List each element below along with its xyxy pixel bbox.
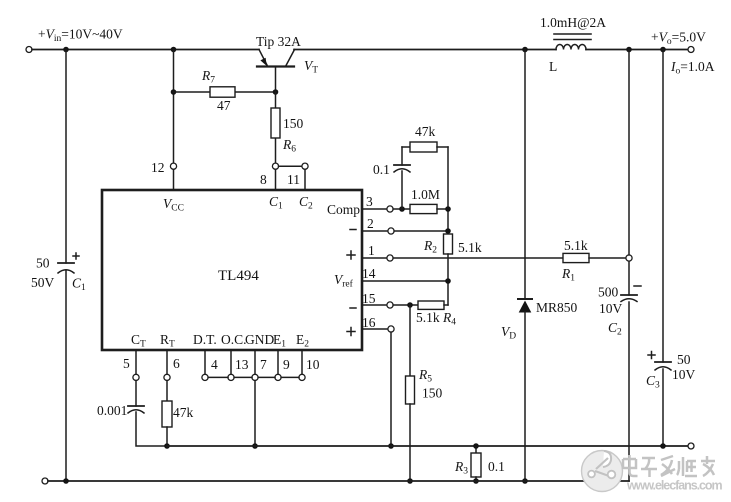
svg-text:13: 13	[235, 357, 249, 372]
label 0.1	[373, 162, 390, 177]
svg-text:16: 16	[362, 315, 376, 330]
pin 15 circle	[387, 302, 393, 308]
pin 9 circle	[275, 374, 281, 380]
svg-text:3: 3	[366, 194, 373, 209]
svg-text:1: 1	[368, 243, 375, 258]
junction pin 2 bus	[445, 228, 451, 234]
pin 2 circle	[388, 228, 394, 234]
pin 16 circle	[388, 326, 394, 332]
wire top rail left	[32, 49, 259, 51]
diode MR850	[518, 50, 532, 482]
label 0.001	[97, 403, 127, 418]
svg-text:5.1k: 5.1k	[458, 240, 482, 255]
capacitor 0.1	[394, 147, 410, 209]
signal ground terminal	[688, 443, 694, 449]
svg-text:11: 11	[287, 172, 300, 187]
svg-text:47: 47	[217, 98, 231, 113]
wire Vcc branch vertical pin 12	[173, 50, 175, 191]
svg-text:+Vin=10V~40V: +Vin=10V~40V	[38, 27, 123, 45]
pin 6 circle	[164, 374, 170, 380]
label pin 15	[362, 291, 376, 306]
junction C3 bottom	[660, 443, 666, 449]
svg-text:0.1: 0.1	[373, 162, 390, 177]
pin 7 circle	[252, 374, 258, 380]
pin 11 circle	[302, 163, 308, 169]
wire signal ground line	[167, 445, 688, 447]
label 47	[217, 98, 231, 113]
resistor R1	[563, 253, 626, 262]
svg-text:5: 5	[123, 356, 130, 371]
pin 13 circle	[228, 374, 234, 380]
wire pin 1 feedback line	[393, 257, 563, 259]
svg-text:47k: 47k	[173, 405, 194, 420]
inductor L	[554, 34, 591, 50]
label pin 11	[287, 172, 300, 187]
label Vcc pin name	[163, 196, 184, 214]
label Vref	[334, 272, 354, 290]
svg-text:Tip 32A: Tip 32A	[256, 34, 301, 49]
wire pin 7 stub	[254, 350, 256, 374]
label C2 pin name	[299, 194, 313, 212]
resistor 47k feedback	[402, 142, 448, 152]
wire pin 14	[362, 280, 448, 282]
svg-text:TL494: TL494	[218, 268, 259, 284]
svg-text:50V: 50V	[31, 275, 55, 290]
label pin 1	[368, 243, 375, 258]
wire left branch vertical	[65, 50, 67, 482]
wire pin11 stub	[304, 169, 306, 190]
label TL494	[218, 268, 259, 284]
label RT pin name	[160, 332, 175, 350]
svg-text:0.001: 0.001	[97, 403, 127, 418]
junction R5 bottom	[407, 478, 413, 484]
svg-text:15: 15	[362, 291, 376, 306]
svg-text:50: 50	[677, 352, 691, 367]
resistor 47k RT	[162, 381, 172, 447]
label E2	[296, 332, 309, 350]
label minus C2	[634, 285, 641, 287]
svg-text:500: 500	[598, 285, 619, 300]
wire pin 13 stub	[230, 350, 232, 374]
label Comp	[327, 202, 360, 217]
resistor R5	[406, 305, 415, 481]
junction R3 top	[473, 443, 479, 449]
pin 10 circle	[299, 374, 305, 380]
svg-text:4: 4	[211, 357, 218, 372]
junction GND bottom	[252, 443, 258, 449]
svg-text:6: 6	[173, 356, 180, 371]
label 5.1k R1	[564, 238, 588, 253]
junction C2 branch top	[626, 47, 632, 53]
label Io	[670, 59, 715, 77]
wire pin 1 stub	[362, 257, 387, 259]
junction R3 bottom	[473, 478, 479, 484]
label R1	[561, 266, 575, 284]
node output sense circle	[626, 255, 632, 261]
svg-text:1.0M: 1.0M	[411, 187, 440, 202]
junction pin 14 bus	[445, 278, 451, 284]
label E1	[273, 332, 286, 350]
label Tip 32A	[256, 34, 301, 49]
wire feedback right vertical	[447, 147, 449, 234]
watermark url text	[626, 479, 723, 493]
label minus pin15	[350, 307, 356, 309]
label pin 10	[306, 357, 320, 372]
label plus pin16	[347, 328, 355, 336]
wire pin 2 stub	[362, 230, 388, 232]
wire pin 5 stub	[135, 350, 137, 374]
label GND	[245, 332, 274, 347]
label D.T.	[193, 332, 217, 347]
label R7	[201, 68, 215, 86]
svg-text:0.1: 0.1	[488, 459, 505, 474]
svg-text:47k: 47k	[415, 124, 436, 139]
label R2	[423, 238, 437, 256]
resistor R4	[418, 301, 448, 309]
resistor R7	[174, 87, 276, 97]
svg-text:50: 50	[36, 256, 50, 271]
input terminal +	[26, 47, 32, 53]
junction RT bottom	[164, 443, 170, 449]
junction C3 branch top	[660, 47, 666, 53]
watermark chinese text	[623, 455, 715, 477]
resistor R6	[271, 92, 280, 163]
junction feedback corner	[445, 206, 451, 212]
svg-text:L: L	[549, 59, 557, 74]
svg-text:8: 8	[260, 172, 267, 187]
capacitor 0.001	[128, 381, 167, 447]
label 500 10V C2	[598, 285, 623, 338]
resistor 1.0M	[410, 204, 448, 213]
svg-text:O.C.: O.C.	[221, 332, 247, 347]
svg-text:5.1k R4: 5.1k R4	[416, 310, 456, 328]
label C1 pin name	[269, 194, 283, 212]
svg-text:D.T.: D.T.	[193, 332, 217, 347]
label 150 R6	[283, 116, 304, 131]
wire pin 9 stub	[277, 350, 279, 374]
label plus C3	[648, 352, 655, 359]
svg-text:Comp: Comp	[327, 202, 360, 217]
label 5.1k R4	[416, 310, 456, 328]
label R6	[282, 137, 296, 155]
negative terminal	[42, 478, 48, 484]
label VT	[304, 58, 318, 76]
wire pin 2 to bus	[394, 230, 448, 232]
label 150 R5	[422, 386, 443, 401]
pin 8 circle	[272, 163, 278, 169]
label pin 6	[173, 356, 180, 371]
junction left branch top	[63, 47, 69, 53]
pin 4 circle	[202, 374, 208, 380]
svg-text:10: 10	[306, 357, 320, 372]
wire bottom rail	[48, 480, 629, 482]
IC U1 TL494 box	[102, 190, 362, 350]
label L	[549, 59, 557, 74]
label 1.0M	[411, 187, 440, 202]
node Vin label	[38, 27, 123, 45]
svg-text:7: 7	[260, 357, 267, 372]
svg-text:www.elecfans.com: www.elecfans.com	[626, 479, 723, 493]
pin 5 circle	[133, 374, 139, 380]
capacitor C1	[58, 253, 79, 273]
label VD	[501, 324, 516, 342]
label R3	[454, 459, 468, 477]
label pin 9	[283, 357, 290, 372]
label pin 16	[362, 315, 376, 330]
label C1 values	[31, 256, 86, 294]
output terminal +	[688, 47, 694, 53]
label 47k feedback	[415, 124, 436, 139]
wire GND down	[254, 381, 256, 447]
svg-text:1.0mH@2A: 1.0mH@2A	[540, 15, 606, 30]
wire pin 3 to node	[393, 208, 410, 210]
wire pin 6 stub	[166, 350, 168, 374]
transistor Q1 Tip 32A	[257, 50, 295, 93]
junction diode branch top	[522, 47, 528, 53]
svg-text:+Vo=5.0V: +Vo=5.0V	[651, 30, 706, 48]
wire top rail right	[294, 49, 688, 51]
resistor R2	[444, 234, 453, 305]
label pin 3	[366, 194, 373, 209]
wire pin 15 to R4	[393, 304, 418, 306]
label O.C.	[221, 332, 247, 347]
wire pin 16 stub	[362, 328, 388, 330]
wire pin8 stub	[275, 169, 277, 190]
label pin 2	[367, 216, 374, 231]
wire pin 16 down	[390, 332, 392, 446]
label plus pin1	[347, 251, 355, 259]
svg-text:9: 9	[283, 357, 290, 372]
svg-text:5.1k: 5.1k	[564, 238, 588, 253]
wire pin8-pin11 link	[279, 165, 303, 167]
svg-text:2: 2	[367, 216, 374, 231]
svg-text:150: 150	[283, 116, 304, 131]
junction pin 16 bottom	[388, 443, 394, 449]
label R5	[418, 367, 432, 385]
wire pin 3 stub	[362, 208, 387, 210]
svg-text:MR850: MR850	[536, 300, 578, 315]
capacitor C2	[621, 50, 637, 482]
label 1.0mH@2A	[540, 15, 606, 30]
wire ground bus pins 4-10	[208, 376, 299, 378]
svg-text:10V: 10V	[599, 301, 623, 316]
svg-text:14: 14	[362, 266, 376, 281]
wire pin 4 stub	[204, 350, 206, 374]
junction node comp	[399, 206, 405, 212]
label pin 5	[123, 356, 130, 371]
pin 3 circle	[387, 206, 393, 212]
svg-text:GND: GND	[245, 332, 274, 347]
label 47k RT	[173, 405, 194, 420]
svg-text:10V: 10V	[672, 367, 696, 382]
junction diode bottom	[522, 478, 528, 484]
watermark logo	[582, 451, 623, 492]
label pin 14	[362, 266, 376, 281]
capacitor C3	[655, 50, 671, 447]
svg-text:12: 12	[151, 160, 165, 175]
label pin 7	[260, 357, 267, 372]
svg-text:150: 150	[422, 386, 443, 401]
junction Vcc branch top	[171, 47, 177, 53]
label Vo	[651, 30, 706, 48]
label pin 13	[235, 357, 249, 372]
pin 1 circle	[387, 255, 393, 261]
label pin 4	[211, 357, 218, 372]
resistor R3	[471, 446, 481, 481]
label 5.1k R2	[458, 240, 482, 255]
junction R7 left	[171, 89, 177, 95]
wire pin 10 stub	[301, 350, 303, 374]
label 0.1 R3	[488, 459, 505, 474]
label pin 8	[260, 172, 267, 187]
label CT pin name	[131, 332, 146, 350]
label minus pin2	[350, 229, 356, 231]
junction R5 top	[407, 302, 413, 308]
wire pin 15 stub	[362, 304, 387, 306]
pin 12 circle	[170, 163, 176, 169]
label pin 12	[151, 160, 165, 175]
junction left bottom	[63, 478, 69, 484]
label 50 10V C3	[646, 352, 696, 391]
junction base node	[273, 89, 279, 95]
label MR850	[536, 300, 578, 315]
